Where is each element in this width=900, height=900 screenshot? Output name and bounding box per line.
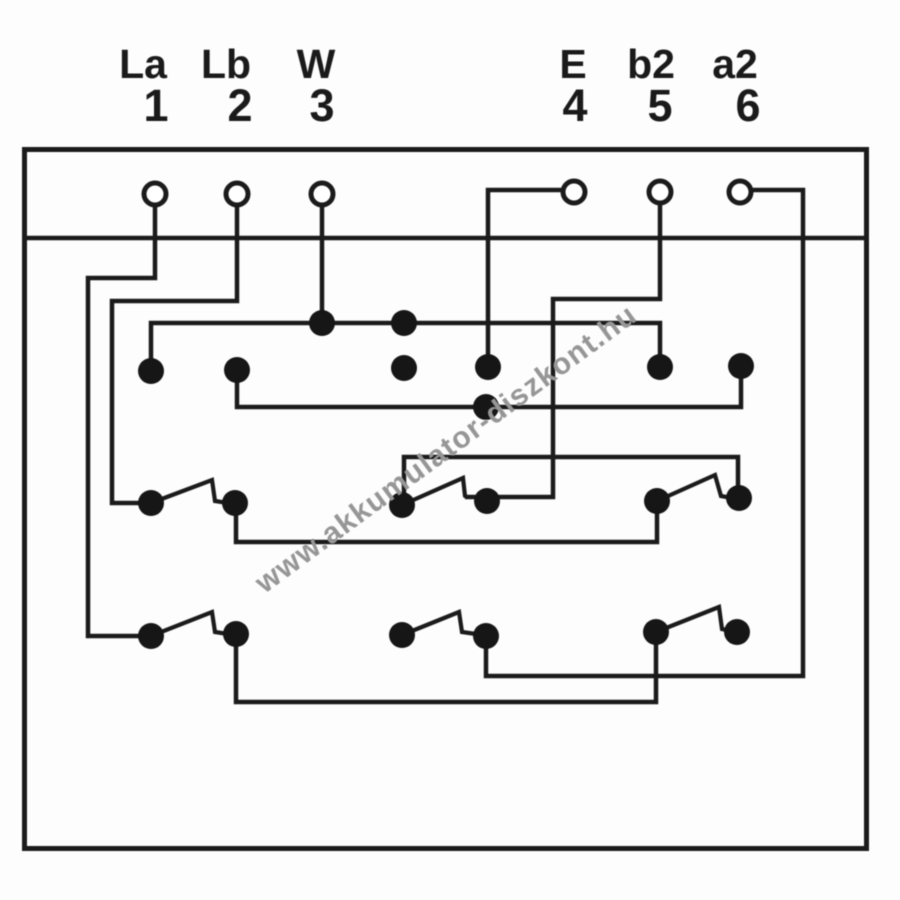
wire middle center pair riser [404,457,738,501]
contact dot S2 right [474,488,500,514]
pin number 4 [515,83,635,128]
contact dot S6 left [643,619,669,645]
junction dot W bus B [391,310,417,336]
pin number 3 [262,83,382,128]
terminal label W [256,44,376,85]
wire bottom row link [236,636,656,702]
terminal label Lb [166,44,286,85]
wire W terminal stem [320,205,325,318]
junction dot W bus A [309,310,335,336]
terminal circle 2 Lb [226,183,248,205]
terminal label E [513,44,633,85]
contact dot row3 col1 [138,358,164,384]
contact dot row3 col2 [224,357,250,383]
contact dot S1 right [222,490,248,516]
wire upper bus node W [151,323,660,368]
terminal circle 4 E [563,181,585,203]
wire E terminal to contact [488,190,562,362]
terminal circle 1 La [144,183,166,205]
contact dot row3 col6 [728,353,754,379]
terminal label La [83,44,203,85]
terminal label a2 [675,44,795,85]
pin number 5 [600,83,720,128]
switch housing box [25,150,867,849]
contact dot row3 col5 [647,354,673,380]
contact dot row3 col3 [391,355,417,381]
contact dot S2 left [389,492,415,518]
terminal label b2 [591,44,711,85]
contact dot S3 right [726,485,752,511]
contact dot row3 col4 E [475,354,501,380]
terminal circle 6 a2 [729,181,751,203]
contact dot S4 left [138,623,164,649]
switch lever S5 bottom row center [402,612,476,635]
switch lever S6 bottom row right [656,607,730,632]
contact dot S5 right [473,623,499,649]
wire a2 terminal to bottom switch contact [486,190,803,676]
terminal circle 3 W [311,183,333,205]
pin number 2 [180,83,300,128]
contact dot S3 left [644,488,670,514]
pin number 6 [688,83,808,128]
pin number 1 [96,83,216,128]
wire Lb terminal to middle-left switch [112,205,237,503]
terminal circle 5 b2 [649,181,671,203]
contact dot S4 right [223,621,249,647]
junction dot bus2 [473,394,499,420]
contact dot S1 left [138,490,164,516]
wire middle row link [236,505,657,542]
wire second bus y407 [237,369,741,407]
wire La terminal to bottom-left switch [88,205,155,636]
watermark www.akkumulator-diszkont.hu [250,300,642,599]
housing inner line [22,236,867,241]
switch lever S4 bottom row left [151,612,228,636]
switch lever S3 middle row right [657,475,732,501]
switch lever S1 middle row left [151,480,228,503]
contact dot S6 right [724,619,750,645]
wire b2 terminal to middle switch contact [465,205,660,497]
switch lever S2 middle row center [402,478,465,505]
contact dot S5 left [389,622,415,648]
